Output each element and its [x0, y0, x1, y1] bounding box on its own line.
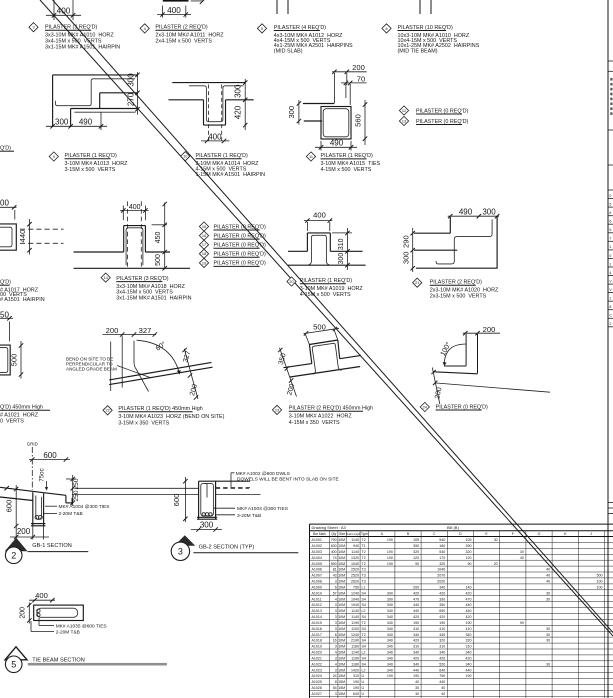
svg-text:1140: 1140: [351, 651, 359, 655]
svg-text:1140: 1140: [351, 615, 359, 619]
svg-text:PILASTER (2 REQ'D): PILASTER (2 REQ'D): [155, 25, 207, 31]
GB-2: leader notes: [214, 506, 288, 519]
pilaster label 24: [420, 402, 488, 411]
svg-text:3-15M x 350 VERTS: 3-15M x 350 VERTS: [118, 420, 169, 426]
svg-text:A1010: A1010: [312, 591, 322, 595]
svg-text:PILASTER (3 REQ'D): PILASTER (3 REQ'D): [45, 25, 97, 31]
svg-text:L2: L2: [362, 668, 366, 672]
svg-text:15M: 15M: [338, 686, 345, 690]
svg-text:A1005: A1005: [312, 562, 322, 566]
svg-text:A1011: A1011: [312, 597, 322, 601]
svg-text:120: 120: [466, 556, 472, 560]
svg-text:40: 40: [520, 556, 524, 560]
svg-text:A1015: A1015: [312, 621, 322, 625]
svg-text:190: 190: [413, 674, 419, 678]
svg-text:40: 40: [546, 568, 550, 572]
svg-text:30: 30: [546, 591, 550, 595]
detail D8: left slanted dimension 350/200: [278, 348, 297, 397]
svg-text:3: 3: [335, 609, 337, 613]
detail D7: bar A1023 before/after bend: [134, 341, 149, 392]
svg-text:600: 600: [43, 451, 57, 460]
svg-text:A1013: A1013: [312, 609, 322, 613]
detail D3: square pilaster outline: [321, 107, 351, 140]
GB-2: stirrup and bars: [201, 483, 214, 516]
svg-text:320: 320: [466, 550, 472, 554]
svg-text:S4: S4: [362, 627, 366, 631]
svg-text:200: 200: [17, 527, 31, 536]
detail D3: 70 dimension: [341, 74, 367, 105]
svg-text:10M: 10M: [338, 639, 345, 643]
GB-1: step outline right of beam: [44, 493, 73, 503]
svg-text:600: 600: [172, 494, 181, 507]
GB-1: 75oc note: [39, 468, 49, 490]
detail D9: angled beam lines: [433, 372, 550, 392]
detail D4: bar A1018 (rounded): [126, 228, 143, 265]
svg-text:1-15M MK# A1501 HAIRPIN: 1-15M MK# A1501 HAIRPIN: [196, 172, 266, 178]
detail D2: vertical bars A1014 with hooks: [189, 86, 243, 122]
svg-text:U: U: [362, 686, 365, 690]
svg-text:PILASTER (1 REQ'D): PILASTER (1 REQ'D): [321, 153, 373, 159]
svg-text:PILASTER (1 REQ'D): PILASTER (1 REQ'D): [300, 278, 352, 284]
pilaster label 12: [399, 106, 468, 115]
detail D7: slanted dimension 327/200: [182, 348, 199, 400]
svg-text:340: 340: [387, 639, 393, 643]
svg-text:19: 19: [202, 261, 206, 265]
detail D1: bar A1013 (rounded bends): [55, 79, 135, 106]
svg-text:A1004: A1004: [312, 556, 322, 560]
svg-text:A1020: A1020: [312, 651, 322, 655]
svg-text:GRID: GRID: [27, 442, 38, 447]
svg-text:T1: T1: [362, 544, 366, 548]
svg-text:500: 500: [10, 354, 19, 367]
svg-text:440: 440: [18, 230, 27, 243]
pilaster label 17: [199, 240, 266, 249]
svg-text:T2: T2: [362, 562, 366, 566]
svg-text:105: 105: [413, 538, 419, 542]
svg-text:470: 470: [466, 597, 472, 601]
svg-text:300: 300: [287, 106, 296, 119]
svg-text:A1001: A1001: [312, 538, 322, 542]
svg-text:1190: 1190: [351, 656, 359, 660]
svg-text:440: 440: [466, 609, 472, 613]
svg-text:1100: 1100: [351, 627, 359, 631]
svg-text:100: 100: [597, 585, 603, 589]
svg-text:Q'D) 450mm High: Q'D) 450mm High: [0, 405, 43, 411]
svg-text:22: 22: [105, 409, 109, 413]
svg-text:1: 1: [609, 245, 611, 249]
svg-text:S4: S4: [362, 662, 366, 666]
svg-text:40: 40: [415, 680, 419, 684]
svg-text:18: 18: [202, 252, 206, 256]
svg-text:PILASTER (4 REQ'D): PILASTER (4 REQ'D): [274, 25, 326, 31]
svg-text:750: 750: [439, 674, 445, 678]
svg-text:9: 9: [53, 155, 55, 159]
svg-text:420: 420: [466, 615, 472, 619]
svg-text:GB-1 SECTION: GB-1 SECTION: [32, 543, 71, 549]
detail D7: 60 degree arc: [137, 340, 181, 374]
svg-text:1140: 1140: [351, 550, 359, 554]
svg-text:10: 10: [183, 155, 187, 159]
detail D3: wall lines from left + 300 dim: [287, 100, 334, 125]
svg-text:10M: 10M: [338, 603, 345, 607]
svg-text:420: 420: [466, 656, 472, 660]
svg-text:C: C: [609, 314, 612, 318]
svg-text:300: 300: [126, 73, 135, 87]
svg-text:20: 20: [494, 562, 498, 566]
svg-text:190: 190: [466, 621, 472, 625]
svg-text:190: 190: [387, 556, 393, 560]
svg-text:540: 540: [439, 550, 445, 554]
GB-1: GRID label and centerline: [27, 442, 38, 491]
svg-text:# A1501 HAIRPIN: # A1501 HAIRPIN: [0, 297, 45, 303]
svg-text:500: 500: [155, 254, 162, 266]
svg-text:A1017: A1017: [312, 633, 322, 637]
tie beam: left dimension 200: [20, 603, 32, 624]
svg-text:PILASTER (0 REQ'D): PILASTER (0 REQ'D): [214, 261, 266, 267]
pilaster schedule note 6: [382, 24, 480, 55]
svg-text:A1019: A1019: [312, 645, 322, 649]
svg-text:400: 400: [57, 7, 71, 16]
svg-text:0 VERTS: 0 VERTS: [0, 418, 24, 424]
GB-1: leader notes: [44, 504, 109, 517]
svg-text:J: J: [591, 532, 593, 536]
svg-text:3: 3: [335, 603, 337, 607]
pilaster label 19: [199, 258, 266, 267]
svg-text:440: 440: [413, 609, 419, 613]
svg-text:30: 30: [494, 538, 498, 542]
pilaster label 13: [399, 116, 468, 125]
svg-text:340: 340: [387, 645, 393, 649]
svg-text:ANGLED GRADE BEAM: ANGLED GRADE BEAM: [66, 366, 117, 371]
svg-text:340: 340: [439, 585, 445, 589]
svg-text:190: 190: [353, 686, 359, 690]
svg-text:3-10M MK# A1023 HORZ (BEND ON: 3-10M MK# A1023 HORZ (BEND ON SITE): [118, 414, 224, 420]
svg-text:6: 6: [335, 633, 337, 637]
svg-text:340: 340: [439, 633, 445, 637]
svg-text:4: 4: [335, 662, 337, 666]
detail D3: tie A1015 (rounded): [323, 109, 349, 137]
svg-text:16: 16: [333, 639, 337, 643]
svg-text:A1022: A1022: [312, 662, 322, 666]
svg-text:10M: 10M: [338, 538, 345, 542]
detail D5: 400 dimension: [304, 211, 332, 232]
GB-2: left dimension 600: [172, 477, 188, 522]
svg-text:3: 3: [32, 26, 34, 30]
svg-text:A1006: A1006: [312, 568, 322, 572]
svg-text:400: 400: [208, 132, 222, 141]
svg-text:400: 400: [167, 6, 181, 15]
svg-text:3: 3: [335, 645, 337, 649]
svg-text:190: 190: [387, 562, 393, 566]
detail D4: right dimension 450/500: [152, 202, 167, 271]
svg-text:4: 4: [609, 271, 611, 275]
svg-text:5: 5: [11, 660, 16, 670]
svg-text:MK# A1002 @600 DWLS: MK# A1002 @600 DWLS: [236, 471, 290, 477]
svg-text:A1021: A1021: [312, 656, 322, 660]
svg-text:340: 340: [413, 662, 419, 666]
svg-text:6: 6: [609, 211, 611, 215]
svg-text:300: 300: [402, 251, 411, 264]
svg-text:MK# A1035 @600 TIES: MK# A1035 @600 TIES: [56, 623, 107, 629]
GB-1: section title: [28, 543, 89, 552]
svg-text:0: 0: [609, 254, 611, 258]
detail D7: witness verticals: [111, 336, 123, 392]
pilaster label 22: [103, 406, 225, 427]
svg-text:190: 190: [413, 621, 419, 625]
svg-text:PILASTER (0 REQ'D): PILASTER (0 REQ'D): [214, 252, 266, 258]
svg-text:Type: Type: [361, 532, 368, 536]
svg-text:8: 8: [609, 305, 611, 309]
detail D4: 400 dimension: [120, 204, 149, 220]
svg-text:340: 340: [387, 609, 393, 613]
svg-text:6: 6: [335, 585, 337, 589]
svg-text:30: 30: [520, 550, 524, 554]
svg-text:T3: T3: [362, 568, 366, 572]
left edge cut detail: dim fragment 50: [0, 311, 13, 342]
svg-text:320: 320: [439, 639, 445, 643]
svg-text:A1009: A1009: [312, 585, 322, 589]
svg-text:690: 690: [439, 609, 445, 613]
svg-text:T3: T3: [362, 574, 366, 578]
svg-text:1040: 1040: [351, 603, 359, 607]
svg-text:790: 790: [331, 538, 337, 542]
svg-text:200: 200: [352, 63, 365, 72]
svg-text:G: G: [538, 532, 541, 536]
svg-text:10M: 10M: [338, 656, 345, 660]
detail D5: right dimension 310/300: [332, 228, 352, 270]
svg-text:7: 7: [609, 237, 611, 241]
svg-text:43: 43: [333, 574, 337, 578]
svg-text:300: 300: [234, 84, 243, 98]
svg-text:10M: 10M: [338, 568, 345, 572]
svg-text:4: 4: [335, 597, 337, 601]
svg-text:390: 390: [466, 544, 472, 548]
svg-text:340: 340: [466, 662, 472, 666]
svg-text:40: 40: [546, 580, 550, 584]
svg-text:400: 400: [331, 550, 337, 554]
svg-text:140: 140: [466, 585, 472, 589]
svg-text:40: 40: [441, 686, 445, 690]
svg-text:340: 340: [413, 651, 419, 655]
svg-text:420: 420: [413, 656, 419, 660]
svg-text:A1025: A1025: [312, 680, 322, 684]
svg-text:2070: 2070: [437, 574, 445, 578]
svg-text:420: 420: [439, 615, 445, 619]
svg-text:10M: 10M: [338, 621, 345, 625]
svg-text:T2: T2: [362, 633, 366, 637]
svg-text:40: 40: [546, 574, 550, 578]
detail D7: top dimension 200/327: [103, 326, 157, 337]
svg-text:560: 560: [354, 114, 363, 127]
svg-text:10M: 10M: [338, 544, 345, 548]
svg-text:410: 410: [413, 627, 419, 631]
GB-1: section marker 2: [5, 538, 28, 564]
GB-1: 600 dimension: [29, 451, 70, 462]
svg-text:90: 90: [468, 562, 472, 566]
svg-text:490: 490: [79, 118, 93, 127]
svg-text:2520: 2520: [351, 568, 359, 572]
svg-text:8: 8: [335, 680, 337, 684]
svg-text:190: 190: [353, 680, 359, 684]
svg-text:540: 540: [439, 538, 445, 542]
svg-text:5: 5: [609, 202, 611, 206]
tie beam: section marker 5: [5, 647, 27, 673]
svg-text:81: 81: [333, 568, 337, 572]
detail D9: 100 degree arc: [439, 341, 466, 366]
svg-text:420: 420: [466, 591, 472, 595]
svg-text:1240: 1240: [351, 591, 359, 595]
svg-text:440: 440: [413, 668, 419, 672]
left edge cut label fragment (row 1): [0, 146, 14, 152]
svg-text:340: 340: [387, 656, 393, 660]
GB-2: section marker 3: [171, 535, 195, 560]
detail D4: pilaster outline: [74, 226, 191, 269]
svg-text:A1008: A1008: [312, 580, 322, 584]
svg-text:TIE BEAM SECTION: TIE BEAM SECTION: [32, 658, 85, 664]
svg-text:70: 70: [357, 74, 365, 83]
GB-1: left dimension 600: [5, 485, 19, 540]
detail D1: bottom dimension 300/490: [46, 112, 107, 130]
detail D5: bar A1019 (rounded with feet): [309, 235, 330, 264]
svg-text:340: 340: [439, 651, 445, 655]
svg-text:17: 17: [202, 243, 206, 247]
svg-text:2: 2: [11, 551, 16, 561]
svg-text:10M: 10M: [338, 651, 345, 655]
pilaster schedule note 4: [140, 24, 224, 45]
svg-text:(MID SLAB): (MID SLAB): [274, 48, 303, 54]
detail D1: right dimension 300/270: [126, 72, 139, 115]
svg-text:30: 30: [546, 633, 550, 637]
svg-text:440: 440: [466, 668, 472, 672]
svg-text:GB-2 SECTION (TYP): GB-2 SECTION (TYP): [199, 544, 255, 550]
GB-1: angled grade beam arriving lines: [0, 486, 44, 501]
svg-text:A1012: A1012: [312, 603, 322, 607]
svg-text:390: 390: [413, 544, 419, 548]
svg-text:250: 250: [73, 478, 80, 489]
detail D6: bar A1020 (rounded): [436, 219, 492, 264]
svg-text:30: 30: [546, 639, 550, 643]
svg-text:30: 30: [415, 686, 419, 690]
detail D6: stepped outline: [414, 216, 498, 268]
svg-text:L1: L1: [362, 585, 366, 589]
svg-text:170: 170: [439, 556, 445, 560]
svg-text:A1014: A1014: [312, 615, 322, 619]
svg-text:420: 420: [439, 591, 445, 595]
svg-text:PILASTER (0 REQ'D): PILASTER (0 REQ'D): [416, 108, 468, 114]
svg-text:1140: 1140: [351, 538, 359, 542]
svg-text:T2: T2: [362, 550, 366, 554]
detail D7: bend note: [66, 357, 150, 378]
svg-text:300: 300: [200, 520, 214, 529]
svg-text:MK# A1004 @300 TIES: MK# A1004 @300 TIES: [59, 504, 110, 510]
svg-text:T3: T3: [362, 580, 366, 584]
detail D8: bar A1022 (rounded, tilted): [312, 343, 341, 374]
svg-text:2: 2: [609, 322, 611, 326]
pilaster schedule note 3: [29, 23, 120, 51]
GB-1: stirrup A1004 and 2-20M bars: [35, 496, 42, 520]
svg-text:DOWELS WILL BE BENT INTO SLAB: DOWELS WILL BE BENT INTO SLAB ON SITE: [237, 477, 339, 483]
svg-text:U: U: [362, 692, 365, 696]
pilaster label 20: [287, 277, 364, 298]
tie beam: section title: [28, 658, 167, 666]
svg-text:30: 30: [546, 662, 550, 666]
pilaster label 10: [181, 152, 266, 178]
svg-text:Q'D): Q'D): [0, 146, 11, 152]
svg-text:3x1-15M MK# A1501 HAIRPIN: 3x1-15M MK# A1501 HAIRPIN: [45, 45, 120, 51]
svg-text:1140: 1140: [351, 609, 359, 613]
svg-text:10M: 10M: [338, 662, 345, 666]
svg-text:3-10M MK# A1022 HORZ: 3-10M MK# A1022 HORZ: [289, 414, 353, 420]
svg-text:0: 0: [609, 194, 611, 198]
svg-text:11: 11: [309, 155, 313, 159]
svg-text:340: 340: [387, 651, 393, 655]
svg-text:420: 420: [439, 656, 445, 660]
svg-text:340: 340: [387, 668, 393, 672]
svg-text:A1018: A1018: [312, 639, 322, 643]
svg-text:10M: 10M: [338, 615, 345, 619]
svg-text:450: 450: [155, 232, 162, 244]
tie beam: 400 dimension: [29, 591, 55, 603]
svg-text:590: 590: [331, 562, 337, 566]
svg-text:57: 57: [333, 591, 337, 595]
svg-text:6: 6: [385, 27, 387, 31]
svg-text:16: 16: [202, 234, 206, 238]
left edge cut detail: 500 dimension: [10, 341, 24, 379]
pilaster label 15: [199, 222, 266, 231]
svg-text:190: 190: [387, 538, 393, 542]
svg-text:A1027: A1027: [312, 692, 322, 696]
svg-text:30: 30: [546, 627, 550, 631]
svg-text:340: 340: [387, 633, 393, 637]
svg-text:Size: Size: [339, 532, 345, 536]
detail D9: corner bar: [444, 334, 478, 374]
svg-text:490: 490: [330, 139, 344, 148]
svg-text:A1016: A1016: [312, 627, 322, 631]
GB-1: bottom dimension 200: [10, 526, 49, 540]
svg-text:6: 6: [609, 220, 611, 224]
svg-text:F: F: [512, 532, 514, 536]
svg-text:S4: S4: [362, 615, 366, 619]
detail D3: bottom dimension 490: [315, 139, 357, 151]
detail D2: hidden pilaster lines (dashed): [209, 85, 222, 141]
svg-text:4: 4: [144, 27, 146, 31]
svg-text:4-15M x 500 VERTS: 4-15M x 500 VERTS: [300, 292, 351, 298]
pilaster label 18: [199, 249, 266, 258]
svg-text:1420: 1420: [351, 668, 359, 672]
svg-text:350: 350: [439, 603, 445, 607]
svg-text:10M: 10M: [338, 597, 345, 601]
svg-text:310: 310: [466, 645, 472, 649]
svg-text:2x4-15M x 500 VERTS: 2x4-15M x 500 VERTS: [155, 39, 212, 45]
detail D6: left dimension 290/300: [402, 228, 415, 272]
svg-text:PILASTER (1 REQ'D): PILASTER (1 REQ'D): [196, 153, 248, 159]
svg-text:PILASTER (0 REQ'D): PILASTER (0 REQ'D): [214, 233, 266, 239]
svg-text:105: 105: [466, 538, 472, 542]
detail D2: right dimension 300/420: [234, 79, 248, 130]
svg-text:PILASTER (0 REQ'D): PILASTER (0 REQ'D): [214, 224, 266, 230]
svg-text:640: 640: [439, 668, 445, 672]
GB-2: dashed dowel line: [216, 487, 250, 489]
svg-text:400: 400: [129, 204, 141, 211]
svg-text:340: 340: [387, 603, 393, 607]
svg-text:320: 320: [413, 550, 419, 554]
svg-text:3x1-15M MK# A1501 HAIRPIN: 3x1-15M MK# A1501 HAIRPIN: [116, 296, 191, 302]
svg-text:30: 30: [415, 692, 419, 696]
svg-text:15M: 15M: [338, 674, 345, 678]
GB-2: dowel note: [231, 471, 339, 488]
left edge cut detail: square pilaster with 00 dim: [0, 199, 17, 251]
left edge cut detail: 440 dimension: [18, 219, 32, 255]
